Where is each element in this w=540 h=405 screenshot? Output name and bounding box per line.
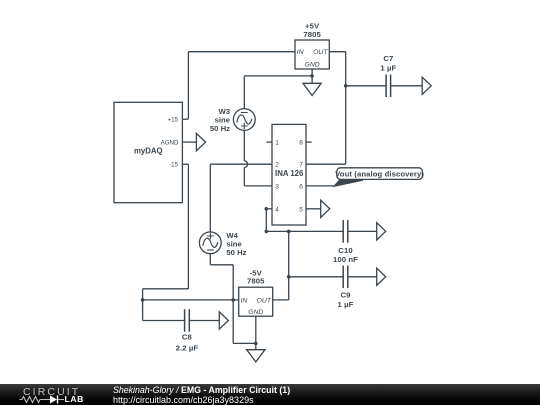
svg-text:6: 6	[299, 183, 303, 190]
svg-text:1 µF: 1 µF	[380, 63, 396, 72]
wire C8 to port	[189, 320, 219, 322]
svg-text:50 Hz: 50 Hz	[210, 124, 230, 133]
svg-text:50 Hz: 50 Hz	[226, 248, 246, 257]
svg-text:myDAQ: myDAQ	[134, 146, 163, 155]
wire pin 5	[306, 208, 321, 210]
wire to C10	[266, 230, 343, 232]
junction	[254, 342, 258, 346]
regulator U -5V 7805	[239, 287, 273, 316]
capacitor C9	[343, 266, 348, 289]
junction	[344, 84, 348, 88]
svg-text:AGND: AGND	[161, 140, 179, 147]
wire +15 up to +5V IN	[187, 52, 189, 120]
source W4 sine 50 Hz	[199, 232, 221, 254]
svg-text:2: 2	[275, 162, 279, 169]
svg-text:100 nF: 100 nF	[333, 255, 358, 264]
wire +5V GND stem	[311, 69, 313, 76]
svg-text:7805: 7805	[303, 30, 321, 39]
wire pin2 horizontal	[210, 163, 272, 165]
svg-text:7805: 7805	[247, 277, 265, 286]
svg-text:+15: +15	[168, 117, 179, 124]
wire W4 line down to ground	[232, 300, 234, 344]
footer bar	[0, 384, 540, 405]
port C9	[377, 268, 386, 285]
wire AGND stub	[182, 141, 196, 143]
wire to INA pin 3	[244, 185, 272, 187]
svg-text:GND: GND	[305, 62, 320, 69]
wire left at 288.8	[143, 288, 189, 290]
wire pin 7	[306, 163, 346, 165]
port pin 5	[321, 200, 330, 217]
ground	[303, 76, 321, 96]
CircuitLab logo	[23, 386, 80, 398]
wire -5V GND stem	[255, 316, 257, 343]
port C7	[422, 77, 431, 94]
svg-text:C7: C7	[383, 54, 393, 63]
port AGND	[196, 133, 205, 151]
wire right	[210, 264, 233, 266]
wire down to IN node	[142, 289, 144, 300]
wire C9 to port	[348, 276, 377, 278]
svg-text:OUT: OUT	[313, 49, 328, 56]
port C8	[219, 312, 228, 329]
junction	[287, 230, 291, 234]
svg-text:2.2 µF: 2.2 µF	[176, 344, 199, 353]
svg-text:IN: IN	[297, 49, 304, 56]
wire -15 down	[187, 164, 189, 289]
junction	[265, 207, 269, 211]
svg-text:IN: IN	[241, 297, 248, 304]
wire pin 6	[306, 185, 333, 187]
wire +5V OUT	[329, 51, 345, 53]
svg-text:C10: C10	[338, 246, 352, 255]
wire W4 bottom	[209, 254, 211, 265]
svg-text:7: 7	[299, 162, 303, 169]
svg-text:GND: GND	[248, 309, 263, 316]
logo resistor	[20, 397, 45, 403]
source W3 sine 50 Hz	[233, 109, 255, 131]
port C10	[377, 223, 386, 240]
wire W3 bottom down	[243, 130, 245, 161]
svg-text:C9: C9	[340, 291, 350, 300]
svg-text:Vout (analog discovery): Vout (analog discovery)	[335, 170, 424, 179]
junction	[231, 298, 235, 302]
myDAQ block	[114, 102, 182, 202]
footer title	[113, 385, 290, 395]
wire down to W3 top	[243, 76, 245, 109]
svg-text:C8: C8	[182, 332, 193, 341]
svg-text:3: 3	[275, 183, 279, 190]
wire hop over pin2 wire	[244, 161, 247, 168]
svg-text:INA 126: INA 126	[275, 169, 304, 178]
wire to C7	[346, 85, 386, 87]
svg-text:5: 5	[299, 206, 303, 213]
svg-text:-15: -15	[169, 162, 179, 169]
svg-text:8: 8	[299, 140, 303, 147]
wire GND branch left	[244, 75, 312, 77]
wire OUT down to pin7	[345, 52, 347, 165]
junction	[310, 74, 314, 78]
svg-text:1 µF: 1 µF	[338, 300, 354, 309]
logo diode	[50, 396, 57, 404]
node Vout (analog discovery)	[337, 168, 423, 180]
pin 1 stub	[266, 141, 272, 143]
regulator U +5V 7805	[295, 40, 329, 69]
wire down to -5V OUT	[288, 277, 290, 300]
wire C10 to port	[348, 230, 377, 232]
junction	[287, 275, 291, 279]
svg-text:4: 4	[275, 206, 279, 213]
wire pin 4 stub	[266, 208, 272, 210]
wire -15 stub	[182, 163, 188, 165]
wire down to IN node	[232, 265, 234, 300]
wire pin4 down	[265, 209, 267, 232]
junction	[265, 230, 269, 234]
capacitor C7	[386, 75, 391, 98]
node Vout flag tail	[332, 179, 363, 187]
wire +15 stub	[182, 118, 188, 120]
wire to C8	[143, 320, 185, 322]
wire to +5V IN	[188, 51, 295, 53]
op-amp INA 126	[272, 124, 306, 225]
logo wire	[44, 399, 50, 401]
wire to C9	[289, 276, 344, 278]
wire continue down	[243, 168, 245, 186]
wire -5V OUT	[273, 299, 289, 301]
wire C7 to port	[391, 85, 423, 87]
junction	[141, 298, 145, 302]
wire IN node to -5V IN	[143, 299, 239, 301]
pin 8 stub	[306, 141, 312, 143]
wire W4 top vertical	[209, 164, 211, 232]
capacitor C10	[343, 220, 348, 243]
footer url	[113, 395, 254, 405]
wire down to C9 line	[288, 231, 290, 276]
wire C8 branch down	[142, 300, 144, 321]
svg-text:1: 1	[275, 140, 279, 147]
wire to ground node	[233, 342, 256, 344]
capacitor C8	[185, 309, 190, 332]
ground	[247, 343, 265, 362]
svg-text:OUT: OUT	[257, 297, 272, 304]
